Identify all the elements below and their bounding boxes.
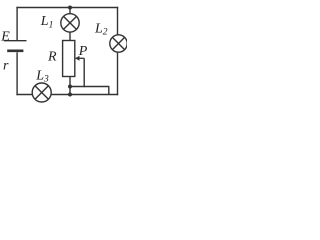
- junction dot (R bottom wire meets bottom wire): [68, 93, 72, 97]
- lamp L3 cross: [35, 86, 48, 99]
- wire: bottom horizontal left segment (corner to lamp L3): [16, 94, 32, 96]
- wire: slider horizontal jog at y=86.5: [70, 86, 110, 88]
- battery E: short thick plate: [7, 49, 23, 52]
- wire: lamp L1 to rheostat R top: [69, 32, 71, 41]
- wire: left vertical lower (battery to bottom corner): [16, 52, 18, 95]
- lamp L1 cross: [64, 16, 77, 29]
- junction dot on top wire (node above L1): [68, 6, 72, 10]
- wire: stub from top wire to lamp L1: [69, 8, 71, 14]
- wire: slider vertical down: [83, 58, 85, 87]
- svg-text:r: r: [3, 59, 9, 74]
- wire: jog vertical down to bottom wire: [108, 87, 110, 95]
- rheostat R body (rectangle): [63, 41, 75, 77]
- rheostat slider P: arrow shaft: [78, 57, 84, 59]
- svg-text:L1: L1: [40, 14, 54, 30]
- lamp L3 circle: [32, 83, 51, 102]
- wire: right vertical lower (lamp L2 to bottom corner): [117, 52, 119, 95]
- wire: top horizontal: [16, 7, 118, 9]
- lamp L2 circle: [110, 35, 127, 52]
- svg-text:R: R: [47, 50, 57, 65]
- wire: right vertical upper (top corner to lamp L2): [117, 7, 119, 35]
- wire: left vertical upper (corner to battery): [16, 7, 18, 41]
- svg-text:L2: L2: [94, 21, 108, 37]
- rheostat slider P: arrowhead touching R: [75, 56, 80, 61]
- lamp L1 circle: [61, 14, 79, 32]
- lamp L2 cross: [112, 37, 124, 49]
- wire: rheostat R bottom to bottom wire: [69, 77, 71, 95]
- svg-text:P: P: [78, 44, 88, 59]
- svg-text:L3: L3: [35, 68, 49, 84]
- svg-text:E: E: [0, 29, 10, 44]
- battery E: long plate: [4, 40, 27, 42]
- wire: bottom horizontal middle segment (lamp L3 to node): [51, 94, 118, 96]
- junction dot (slider jog meets R bottom wire): [68, 85, 72, 89]
